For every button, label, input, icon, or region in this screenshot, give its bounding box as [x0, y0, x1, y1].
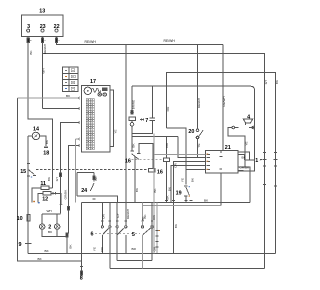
fuse 12 body	[43, 192, 51, 196]
switch 6 pole B terminals	[116, 226, 118, 228]
switch 15 contact	[28, 170, 34, 175]
svg-text:14: 14	[33, 126, 39, 132]
connector arcs at 17 left edge	[78, 97, 81, 147]
svg-text:BK: BK	[45, 249, 50, 253]
capacitor 7 top lead	[151, 86, 153, 117]
gauge circle in 17	[84, 87, 91, 94]
switch 16a contact	[132, 154, 139, 160]
switch 4 right stub	[252, 127, 254, 129]
switch 24 pin square	[93, 176, 95, 180]
wire: relay 21 right pin jog B	[238, 155, 245, 160]
enclosure box around 7/20/4/21	[132, 86, 255, 171]
svg-text:8: 8	[80, 276, 83, 282]
coil squiggle in 17	[92, 88, 101, 92]
switch 24 lower tick	[93, 198, 96, 200]
fuse 12 lead tick	[53, 192, 55, 195]
pin tick on x=61.2 end	[60, 204, 63, 206]
svg-text:YE: YE	[181, 178, 185, 182]
motor 2 terminal circles	[40, 224, 45, 229]
switch 19 contact	[186, 187, 190, 195]
switch 16a bracket loop	[139, 143, 153, 168]
mech dashed link 16a	[132, 159, 164, 161]
switch wire top pin ticks	[101, 220, 153, 222]
wire RE/WH branch of pin 23 to right edge (GY drop)	[43, 54, 265, 269]
lamp 14 leads	[28, 136, 46, 146]
switch 20 contact	[199, 130, 203, 136]
svg-text:OR: OR	[165, 142, 169, 147]
connector ticks before label 7	[140, 118, 144, 121]
wire: connector 17 pin to motor area	[61, 122, 80, 213]
wire pin down to BK rail	[66, 237, 68, 254]
svg-text:9: 9	[19, 242, 22, 248]
svg-text:13: 13	[39, 9, 45, 15]
svg-text:OR/BK: OR/BK	[240, 166, 251, 170]
svg-text:RE/WH: RE/WH	[197, 98, 201, 108]
bottom rail y=202.5	[82, 202, 250, 204]
wire color labels rotated	[29, 44, 279, 252]
mech dashed link 15-16	[36, 169, 148, 171]
wire below fuse to junction	[131, 120, 133, 122]
svg-text:OR: OR	[101, 213, 105, 218]
fuse 11 leads	[32, 188, 53, 203]
switch 16a lower throw wire	[134, 157, 136, 202]
relay 21 bottom inner tick	[219, 168, 222, 170]
svg-text:BK: BK	[242, 155, 247, 159]
wire: inner link y=205.4 to switch 5	[142, 204, 221, 206]
rail end ticks x=166.5 x=173.3	[165, 199, 192, 201]
svg-text:GY: GY	[116, 213, 120, 217]
connector 1 inline ticks on BK wire	[274, 158, 278, 160]
wire: RE/WH vertical drop at x=125.8 to switch 6	[125, 44, 127, 225]
switch 6 pole B wires	[117, 203, 126, 261]
svg-text:OR: OR	[166, 106, 170, 111]
svg-text:YE: YE	[197, 143, 201, 147]
svg-text:BK: BK	[29, 50, 33, 55]
switch 6 pole A contact	[103, 228, 110, 235]
svg-text:BK: BK	[204, 199, 209, 203]
svg-text:YE: YE	[113, 129, 117, 133]
tick marks lower right verticals	[263, 185, 277, 187]
switch 6 pole A terminals	[101, 226, 103, 228]
motor 2 top rail	[42, 213, 60, 215]
switch 20 lower lead	[197, 139, 199, 158]
capacitor 7 plates	[150, 118, 156, 120]
capacitor 7 bottom lead to crossbar	[132, 121, 152, 134]
svg-text:5: 5	[132, 232, 135, 238]
component 10 body	[27, 215, 30, 221]
button 4 terminals	[232, 126, 235, 129]
wire: RE/WH drop to switch 20	[197, 44, 199, 128]
pin square on x=68.6 upper	[68, 206, 70, 210]
connector column x=156.8	[156, 203, 158, 253]
wire: feed to relay 21 pin2 from switch 20	[178, 137, 206, 158]
wire: merged lead to connector 1	[244, 159, 254, 161]
pin square on x=60.6	[60, 173, 62, 177]
svg-text:BK: BK	[135, 187, 139, 192]
two small circles in 17	[98, 93, 101, 96]
svg-text:BK: BK	[68, 244, 72, 249]
svg-text:RE/WH: RE/WH	[43, 44, 47, 54]
wire: feed to relay 21 pin5	[186, 169, 206, 171]
grid cell icons	[71, 69, 75, 90]
bracket wire right of 17 (YE)	[110, 90, 114, 146]
wire: relay 21 right pin stub	[238, 170, 244, 172]
svg-text:15: 15	[20, 169, 26, 175]
relay 21 top inner tick	[220, 151, 223, 157]
svg-text:YE: YE	[93, 247, 97, 251]
wire: switch 19 lower lead	[185, 197, 187, 203]
lamp 14 circle	[32, 132, 39, 139]
wire: left edge vertical BK	[18, 98, 82, 261]
svg-text:RE/WH: RE/WH	[222, 96, 226, 106]
button 4 cap	[243, 119, 252, 123]
switch 16a pin ticks	[131, 151, 141, 153]
wire jog to x=185.8 down to switch 19	[167, 128, 186, 185]
bottom rail y=268.5	[110, 268, 265, 270]
svg-text:7: 7	[145, 118, 148, 124]
inner rail y=260.3	[117, 259, 152, 261]
pin square right of motor tie	[66, 233, 68, 237]
fuse 11 body	[41, 186, 49, 189]
gray highlight: vertical through 16b	[153, 134, 155, 254]
connector 13 pin ticks	[30, 39, 60, 41]
connector 1 inline ticks on GY wire	[260, 158, 267, 160]
svg-text:BR: BR	[132, 247, 137, 251]
svg-text:17: 17	[90, 79, 96, 85]
wire line C from node x=166.5 to right edge (BK drop)	[167, 72, 276, 253]
junction circle node	[130, 123, 134, 127]
switch 24 contact	[90, 183, 94, 191]
svg-text:11: 11	[40, 181, 46, 187]
wire: feed to relay 21 pin4	[171, 166, 206, 203]
wire gray from 17 pin down	[75, 139, 79, 203]
connector 17 box	[81, 85, 110, 151]
fuse 12 leads	[38, 193, 61, 205]
resistor 16b body	[148, 169, 155, 173]
svg-text:OR/BK: OR/BK	[63, 189, 67, 200]
svg-text:1: 1	[255, 158, 258, 164]
svg-text:21: 21	[225, 145, 231, 151]
wire: RE/WH drop into relay 21 top	[222, 44, 224, 150]
colored pin specks	[31, 154, 208, 232]
relay 21 box	[206, 151, 238, 173]
switch 15 pin ticks	[27, 164, 36, 177]
svg-text:3: 3	[27, 24, 30, 30]
svg-text:20: 20	[188, 129, 194, 135]
wire: fuse lead at x=132	[131, 86, 133, 110]
wire junction down to crossbar	[131, 126, 133, 137]
component number labels	[17, 9, 259, 282]
svg-text:RE/WH: RE/WH	[126, 209, 130, 219]
resistor 16c body on x=166.5	[163, 158, 169, 161]
wire: OR/BK drop right of relay 21	[238, 167, 250, 203]
wire: WH into connector 17 pin	[43, 108, 80, 110]
svg-text:23: 23	[40, 24, 46, 30]
svg-text:19: 19	[176, 191, 182, 197]
wire: lamp 14 left vertical down through 15,10,9	[27, 136, 29, 254]
gray highlight: feed to 21 pin1	[154, 153, 206, 155]
pin square above fuse	[131, 111, 133, 114]
svg-text:WH: WH	[47, 209, 52, 213]
wire: node 16 lower vertical	[165, 161, 167, 202]
svg-text:GY: GY	[55, 177, 59, 181]
switch 24 wiring	[77, 172, 117, 202]
switch 5 contact	[143, 228, 151, 235]
fuse 7 body	[129, 117, 135, 120]
svg-text:16: 16	[125, 159, 131, 165]
svg-text:24: 24	[81, 188, 87, 194]
svg-text:YE: YE	[244, 141, 248, 145]
switch 5 terminals	[141, 226, 143, 228]
indicator grid component	[63, 67, 78, 91]
wire: relay 21 bottom lead	[220, 173, 222, 206]
box17 pin column	[86, 99, 94, 150]
mech dashed link 6-5	[95, 232, 140, 234]
svg-text:OR: OR	[173, 162, 177, 167]
svg-text:OR: OR	[152, 246, 156, 251]
wire 16c upper lead from crossbar	[165, 137, 167, 159]
ground rail BK bottom	[28, 252, 275, 254]
svg-text:10: 10	[17, 216, 23, 222]
svg-text:4: 4	[247, 114, 250, 120]
connector 9 tick	[25, 242, 31, 244]
svg-text:BR/RE: BR/RE	[131, 100, 135, 109]
svg-text:WH: WH	[42, 68, 46, 73]
svg-text:OR: OR	[100, 246, 104, 251]
svg-text:BK: BK	[66, 94, 71, 98]
svg-text:RE/WH: RE/WH	[164, 39, 176, 43]
svg-text:–: –	[260, 158, 262, 162]
wire: feed to relay 21 pin3	[173, 162, 205, 253]
small filled rect in 17	[103, 88, 107, 91]
switch 20 terminals	[196, 129, 199, 132]
wire: pin 23 drop from connector 13	[42, 37, 44, 109]
svg-text:BK: BK	[191, 177, 195, 182]
wire: relay 21 right pin jog A	[238, 152, 250, 160]
pin 8 square	[80, 271, 82, 275]
wire: pin 3 drop from connector 13	[28, 37, 52, 188]
BK wire into 17	[18, 97, 80, 99]
connector 13 box	[22, 15, 63, 37]
svg-text:22: 22	[54, 24, 60, 30]
button 4 contact bars	[235, 123, 253, 128]
svg-text:BK: BK	[174, 223, 178, 228]
svg-text:12: 12	[42, 197, 48, 203]
switch 6 pole A wires	[102, 203, 110, 269]
switch 16a wires	[131, 137, 133, 151]
svg-text:OR: OR	[152, 214, 156, 219]
motor 2 bottom tie	[42, 229, 67, 236]
tiny ticks y=152.4 and y=166.2 on right verticals	[263, 152, 277, 166]
svg-text:16: 16	[157, 169, 163, 175]
svg-text:BK: BK	[47, 176, 51, 181]
switch 5 wires	[151, 203, 153, 261]
wire: connector 17 pin stub	[67, 145, 79, 233]
relay 21 right pin ticks	[238, 152, 240, 171]
left BK rail lower	[17, 260, 81, 262]
relay 21 left pin ticks	[204, 154, 210, 169]
svg-text:RE/WH: RE/WH	[85, 40, 97, 44]
switch 19 pin ticks	[184, 186, 187, 196]
wire: pin 22 RE/WH feed line A	[57, 37, 224, 45]
grid cell dots	[65, 70, 67, 89]
connector 13 terminal circles	[27, 29, 30, 32]
wire: crossbar y=136.6	[132, 136, 178, 138]
wire color labels horizontal	[38, 39, 262, 261]
svg-text:GY: GY	[264, 80, 268, 84]
svg-text:6: 6	[91, 231, 94, 237]
svg-text:BK: BK	[48, 230, 53, 234]
switch 6 pole B contact	[117, 228, 124, 235]
connector 13 pin squares	[27, 38, 29, 43]
splice 18 bar	[44, 146, 48, 148]
motor 2 terminal leads	[42, 214, 57, 224]
svg-text:18: 18	[43, 151, 49, 157]
wire: enclosure left vertical	[81, 203, 83, 262]
gray highlight: switch 5 left drop	[142, 203, 144, 269]
svg-text:BK: BK	[38, 257, 43, 261]
wire: pin 8 drop	[80, 261, 82, 272]
switch 4 wiring U	[228, 128, 245, 167]
